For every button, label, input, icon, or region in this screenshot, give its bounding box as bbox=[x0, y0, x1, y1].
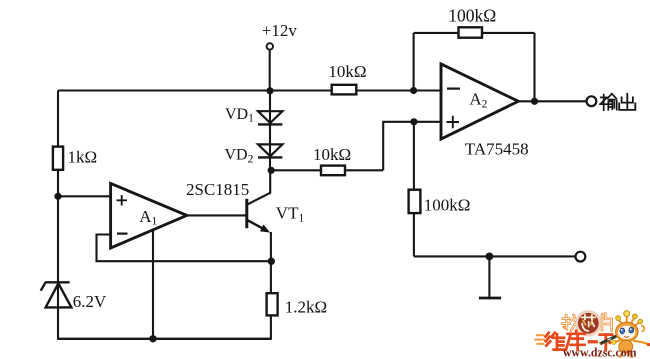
label output (shuchu) glyph 输 bbox=[600, 94, 617, 110]
watermark pian glyph (chip) outline bbox=[602, 314, 612, 331]
wire A2 output bbox=[518, 100, 586, 102]
svg-text:www.dzsc.com: www.dzsc.com bbox=[563, 346, 637, 359]
wire A2 minus input bbox=[414, 89, 441, 91]
svg-text:10kΩ: 10kΩ bbox=[328, 62, 366, 81]
wire A1 negative supply pin bbox=[152, 230, 154, 338]
watermark magnifier with xin glyph bbox=[576, 311, 601, 336]
svg-text:2SC1815: 2SC1815 bbox=[186, 180, 249, 199]
wire 10k riser to A2 plus input bbox=[383, 122, 441, 171]
watermark xia glyph bbox=[600, 335, 612, 350]
wire emitter vertical bbox=[270, 232, 272, 294]
svg-text:100kΩ: 100kΩ bbox=[424, 196, 471, 215]
wire bottom right rail bbox=[414, 255, 576, 257]
watermark speed lines bbox=[535, 335, 546, 344]
resistor 100k right bbox=[409, 190, 421, 213]
resistor 1k bbox=[53, 147, 63, 170]
wire left rail bbox=[57, 91, 59, 339]
wire diode chain vertical bbox=[269, 91, 271, 171]
terminal output bbox=[587, 96, 597, 106]
wire emitter to bottom rail bbox=[270, 315, 272, 339]
node ground junction bbox=[486, 253, 494, 261]
watermark mascot bbox=[612, 311, 650, 358]
zener diode 6.2V bbox=[41, 282, 72, 307]
resistor 1.2k bbox=[267, 293, 278, 315]
wire collector bbox=[247, 170, 270, 205]
svg-text:10kΩ: 10kΩ bbox=[313, 145, 351, 164]
node 1k to A1 plus bbox=[54, 193, 61, 200]
wire A1 minus feedback loop bbox=[97, 235, 272, 262]
svg-text:6.2V: 6.2V bbox=[73, 292, 107, 311]
diode VD2 bbox=[258, 144, 282, 157]
wire A1 plus input bbox=[58, 195, 111, 197]
wire feedback right vertical bbox=[533, 33, 535, 101]
node A2 output bbox=[531, 98, 538, 105]
transistor VT1 bbox=[247, 199, 270, 233]
diode VD1 bbox=[258, 111, 282, 124]
svg-text:100kΩ: 100kΩ bbox=[448, 6, 496, 26]
watermark weiku red text 维 bbox=[546, 333, 565, 350]
svg-text:TA75458: TA75458 bbox=[465, 140, 529, 159]
wire ground drop bbox=[488, 256, 490, 296]
watermark mascot pen bbox=[598, 333, 623, 345]
op-amp A1 bbox=[111, 183, 187, 248]
node A2 plus input bbox=[410, 118, 417, 125]
wire top rail bbox=[58, 89, 414, 91]
label output (shuchu) glyph 出 bbox=[619, 94, 635, 110]
svg-text:1.2kΩ: 1.2kΩ bbox=[285, 298, 327, 317]
svg-text:1kΩ: 1kΩ bbox=[68, 148, 98, 167]
resistor 10k lower bbox=[321, 166, 345, 176]
watermark zhao glyph (find) outline bbox=[562, 315, 579, 331]
wire plus node drop to 100k bbox=[413, 122, 415, 257]
terminal +12v bbox=[267, 43, 273, 49]
op-amp U2 A2 bbox=[441, 64, 518, 139]
ground bbox=[479, 297, 501, 300]
resistor 100k feedback bbox=[459, 27, 483, 37]
wire +12v drop bbox=[269, 50, 271, 90]
resistor 10k upper bbox=[332, 85, 357, 95]
wire bottom rail bbox=[57, 338, 272, 340]
wire A1 output to base bbox=[186, 214, 247, 216]
wire feedback top bbox=[414, 32, 535, 34]
terminal bottom right bbox=[576, 252, 586, 262]
watermark yi glyph bbox=[588, 340, 598, 343]
wire node VD2 to 10k resistor bbox=[271, 169, 383, 171]
node bottom rail bbox=[149, 335, 156, 342]
node A2 minus input bbox=[410, 87, 417, 94]
node below VD2 bbox=[268, 167, 275, 174]
svg-text:+12v: +12v bbox=[262, 21, 298, 40]
node top rail / diode chain bbox=[266, 87, 273, 94]
watermark weiku red text 库 bbox=[566, 331, 585, 350]
node emitter / minus loop bbox=[268, 258, 275, 265]
wire feedback left vertical bbox=[413, 33, 415, 91]
